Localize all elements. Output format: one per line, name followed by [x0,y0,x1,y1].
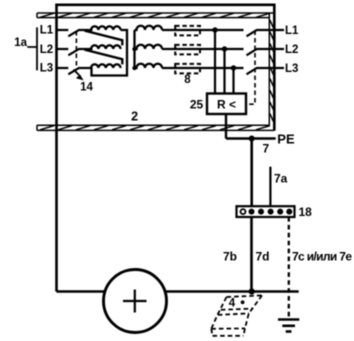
svg-text:4: 4 [229,298,236,310]
svg-text:L3: L3 [40,63,53,75]
svg-text:L2: L2 [285,44,298,56]
svg-text:7b: 7b [223,250,237,264]
svg-text:R <: R < [217,98,236,112]
svg-text:7d: 7d [255,250,269,264]
svg-text:1a: 1a [14,37,27,49]
svg-text:L1: L1 [285,25,299,37]
svg-text:25: 25 [190,98,204,112]
svg-text:7: 7 [262,141,269,155]
svg-text:L1: L1 [40,25,54,37]
svg-text:8: 8 [184,74,191,86]
svg-text:14: 14 [80,81,93,93]
svg-text:2: 2 [131,109,138,123]
svg-text:L2: L2 [40,44,53,56]
svg-text:L3: L3 [285,63,298,75]
svg-text:7c и/или 7e: 7c и/или 7e [292,250,352,264]
svg-text:18: 18 [299,205,313,219]
svg-text:PE: PE [277,131,295,146]
svg-text:7a: 7a [274,172,288,186]
